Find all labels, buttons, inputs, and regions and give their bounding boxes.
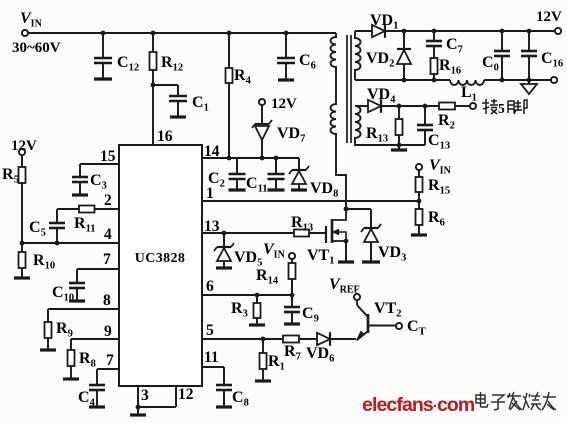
resistor R16 [431, 57, 462, 82]
svg-text:12V: 12V [536, 9, 562, 25]
terminal 12V output return [551, 77, 557, 83]
wire pin 7 row [77, 269, 119, 283]
svg-text:VREF: VREF [329, 276, 360, 296]
capacitor C13 [399, 104, 450, 152]
wire pins 3 and 12 to ground [136, 386, 176, 414]
svg-text:C8: C8 [232, 389, 249, 409]
resistor R13 gate [291, 214, 326, 237]
svg-text:5: 5 [498, 101, 505, 116]
ground of VD5 [216, 266, 232, 269]
ground of R6 [411, 233, 427, 236]
capacitor C7 [426, 29, 463, 58]
svg-text:7: 7 [106, 352, 114, 369]
wire pin 4 row [20, 241, 119, 246]
svg-text:C9: C9 [302, 305, 319, 325]
wire 12V output top rail [385, 30, 555, 32]
svg-text:VIN: VIN [429, 157, 452, 177]
wire pin 2 row [95, 208, 120, 210]
ground of C6 [278, 78, 294, 81]
svg-text:VT1: VT1 [307, 247, 334, 267]
pin 7b label [106, 352, 114, 369]
svg-text:R12: R12 [161, 54, 183, 74]
wire L1 to return terminal [484, 79, 551, 81]
pin 13 label [204, 218, 220, 235]
capacitor C5 [29, 219, 65, 243]
svg-text:VD2: VD2 [366, 50, 394, 70]
ground of VT1 source [338, 260, 354, 263]
svg-text:C5: C5 [29, 219, 46, 239]
svg-text:5: 5 [206, 322, 214, 339]
ground of R3 [249, 323, 265, 326]
zener diode VD8 [289, 158, 338, 200]
svg-text:VIN: VIN [20, 10, 43, 30]
resistor R3 [231, 295, 261, 324]
pin 2 label [104, 192, 112, 209]
svg-text:R13: R13 [291, 214, 313, 234]
resistor R1 [260, 339, 285, 380]
svg-text:CT: CT [407, 318, 426, 338]
resistor R6 [416, 199, 445, 234]
svg-text:1: 1 [206, 185, 214, 202]
terminal 12V left [11, 138, 37, 155]
svg-text:3: 3 [141, 387, 149, 404]
capacitor C10 [52, 283, 85, 304]
ground of C10 [69, 299, 85, 302]
transformer core [347, 35, 351, 143]
svg-text:R6: R6 [428, 209, 445, 229]
terminal 12V for VD7 [259, 96, 297, 112]
svg-text:VD8: VD8 [310, 180, 338, 200]
wire main input rail [28, 32, 336, 34]
svg-text:VD7: VD7 [277, 125, 305, 145]
transformer T primary winding [331, 33, 347, 209]
svg-text:R5: R5 [2, 166, 19, 186]
svg-text:elecfans·com: elecfans·com [362, 394, 475, 416]
svg-text:R3: R3 [231, 300, 248, 320]
svg-text:C1: C1 [192, 94, 209, 114]
pin 3 label [141, 387, 149, 404]
capacitor C16 [521, 29, 563, 83]
resistor R9 [45, 320, 73, 349]
ground of C12 [94, 77, 112, 80]
ground of R9 [40, 348, 56, 351]
ground of R10 [14, 276, 30, 279]
watermark elecfans.com [362, 394, 475, 416]
resistor R10 [19, 243, 56, 277]
terminal CT [396, 318, 426, 338]
transformer secondary winding bottom [355, 106, 399, 145]
wire pin 6 row [202, 293, 294, 298]
resistor R11 [57, 206, 95, 235]
ground of R13 aux [391, 148, 407, 151]
svg-text:8: 8 [103, 292, 111, 309]
pin 5 label [206, 322, 214, 339]
svg-text:12V: 12V [11, 138, 37, 154]
capacitor C6 [277, 31, 316, 79]
svg-text:R8: R8 [79, 350, 96, 370]
diode VD1 [355, 12, 398, 38]
svg-text:C13: C13 [428, 132, 450, 152]
ground of C1 [170, 115, 186, 118]
diode VD6 [306, 332, 356, 364]
svg-text:VT2: VT2 [374, 300, 401, 320]
inductor L1 [450, 80, 484, 104]
ground of C3 [72, 193, 88, 196]
svg-text:R4: R4 [234, 67, 252, 87]
zener diode VD5 [214, 233, 262, 269]
svg-text:R9: R9 [56, 320, 73, 340]
capacitor C0 [482, 29, 510, 83]
pin 15 label [100, 148, 116, 165]
resistor R4 [226, 31, 252, 158]
zener diode VD7 [252, 105, 305, 158]
svg-text:2: 2 [104, 192, 112, 209]
transistor VT2 [357, 300, 402, 341]
resistor R15 [416, 170, 451, 201]
svg-text:VIN: VIN [263, 241, 286, 261]
wire pin 11 row [202, 367, 224, 385]
svg-text:VD1: VD1 [370, 12, 398, 32]
svg-text:R16: R16 [439, 57, 461, 77]
pin 7 label [103, 251, 111, 268]
terminal VIN for R14 [263, 241, 295, 261]
svg-text:R2: R2 [438, 112, 455, 132]
ground of C4 [89, 405, 105, 408]
capacitor C9 [284, 295, 319, 325]
ground of R8 [63, 377, 79, 380]
svg-text:R15: R15 [428, 177, 450, 197]
svg-text:15: 15 [100, 148, 116, 165]
capacitor C4 [78, 385, 105, 409]
ground triangle at output [521, 80, 537, 94]
wire pin 13 row [202, 231, 294, 236]
capacitor C3 [72, 172, 107, 194]
wire pin 5 row [202, 337, 283, 342]
wire aux rail [381, 105, 439, 107]
capacitor C8 [216, 385, 249, 409]
ground of VD8 [291, 188, 307, 191]
svg-text:30~60V: 30~60V [12, 40, 61, 56]
terminal VREF [329, 276, 360, 300]
terminal 12V output plus [536, 9, 562, 34]
terminal VIN sense [416, 157, 452, 177]
svg-text:9: 9 [104, 323, 112, 340]
zener diode VD3 [346, 209, 406, 264]
svg-text:L1: L1 [461, 84, 477, 104]
resistor R13 aux [366, 104, 403, 149]
pin 14 label [204, 143, 220, 160]
pin 6 label [206, 278, 214, 295]
resistor R14 [256, 259, 296, 295]
ground of R1 [255, 379, 271, 382]
capacitor C1 [153, 85, 209, 116]
svg-text:VD5: VD5 [234, 249, 262, 269]
svg-text:UC3828: UC3828 [135, 251, 186, 266]
svg-text:R1: R1 [268, 353, 285, 373]
capacitor C11 [246, 158, 285, 195]
pin 11 label [204, 349, 219, 366]
svg-text:11: 11 [204, 349, 219, 366]
svg-text:4: 4 [104, 226, 112, 243]
svg-text:C12: C12 [117, 54, 139, 74]
ground of C2 [229, 188, 246, 191]
resistor R7 [283, 336, 317, 363]
svg-text:R13: R13 [366, 125, 388, 145]
pin 4 label [104, 226, 112, 243]
wire pin 7b row [97, 369, 119, 385]
svg-text:R14: R14 [256, 267, 279, 287]
svg-text:R7: R7 [284, 343, 301, 363]
diode VD2 [366, 29, 411, 83]
svg-text:7: 7 [103, 251, 111, 268]
svg-text:C7: C7 [446, 36, 463, 56]
transformer secondary winding top [355, 31, 361, 80]
pin 16 label [157, 128, 173, 145]
label jie-5-jiao (connect pin 5) [482, 99, 527, 116]
svg-text:VD6: VD6 [306, 345, 334, 365]
wire pin 8 row [48, 309, 119, 322]
svg-text:6: 6 [206, 278, 214, 295]
pin 9 label [104, 323, 112, 340]
ground of C9 [284, 322, 300, 325]
svg-text:C2: C2 [208, 170, 225, 190]
ground of C11 [268, 188, 285, 191]
svg-text:C6: C6 [299, 52, 316, 72]
wire pin 15 row [80, 164, 119, 177]
diode VD4 [355, 86, 396, 113]
terminal to pin 5 [470, 103, 476, 109]
ground of C8 [216, 405, 232, 408]
svg-text:R10: R10 [33, 252, 55, 272]
ground of VD3 [362, 260, 380, 263]
svg-text:R11: R11 [74, 215, 95, 235]
resistor R12 [150, 31, 184, 145]
input terminal VIN with labels [12, 10, 61, 56]
IC U1 UC3828 [119, 145, 202, 386]
MOSFET VT1 [307, 207, 348, 267]
svg-text:VD3: VD3 [378, 244, 406, 264]
pin 1 label [206, 185, 214, 202]
ground of pins 3 12 [130, 413, 146, 416]
svg-text:12: 12 [178, 386, 194, 403]
capacitor C2 [208, 158, 246, 190]
resistor R2 [438, 103, 470, 132]
pin 8 label [103, 292, 111, 309]
watermark Chinese characters dianzifashaoyou [476, 392, 556, 410]
wire pin 1 row [202, 200, 419, 202]
wire pin 14 row [202, 156, 299, 161]
svg-text:VD4: VD4 [367, 86, 396, 106]
resistor R5 [2, 155, 26, 243]
svg-text:C11: C11 [246, 175, 267, 195]
resistor R8 [68, 350, 96, 378]
svg-text:C3: C3 [90, 172, 107, 192]
wire pin 9 row [71, 339, 119, 350]
svg-text:12V: 12V [271, 96, 297, 112]
pin 12 label [178, 386, 194, 403]
svg-text:16: 16 [157, 128, 173, 145]
wire output bottom rail [355, 79, 450, 81]
capacitor C12 [94, 31, 139, 78]
svg-text:C16: C16 [541, 50, 563, 70]
